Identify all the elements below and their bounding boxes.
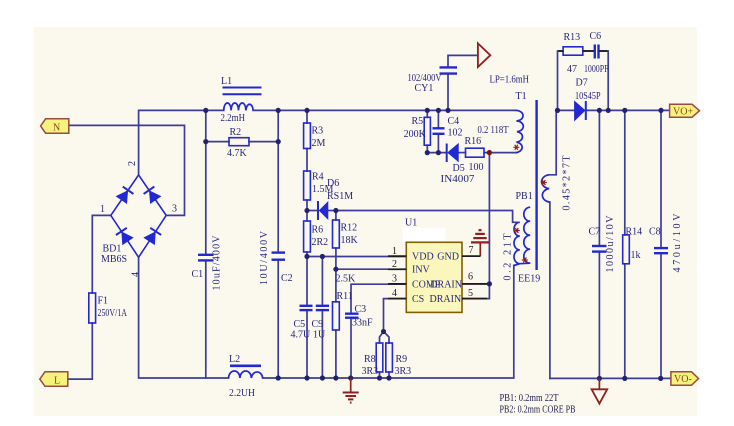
- svg-text:EE19: EE19: [518, 274, 540, 285]
- svg-text:200K: 200K: [404, 129, 427, 140]
- svg-text:CY1: CY1: [415, 83, 434, 94]
- svg-text:102: 102: [448, 128, 463, 139]
- svg-text:10uF/400V: 10uF/400V: [212, 235, 223, 291]
- svg-text:T1: T1: [516, 91, 527, 102]
- svg-text:2: 2: [127, 161, 138, 166]
- svg-text:100: 100: [469, 162, 484, 173]
- svg-text:C2: C2: [281, 273, 293, 284]
- svg-text:R13: R13: [564, 32, 581, 43]
- svg-text:7: 7: [469, 245, 474, 256]
- svg-text:2R2: 2R2: [312, 237, 329, 248]
- svg-text:6: 6: [468, 271, 473, 282]
- svg-text:4.7K: 4.7K: [227, 148, 248, 159]
- svg-text:INV: INV: [412, 265, 431, 276]
- svg-text:4: 4: [392, 288, 397, 299]
- svg-text:R14: R14: [626, 227, 643, 238]
- svg-text:R4: R4: [312, 172, 324, 183]
- svg-text:0.45*2*7T: 0.45*2*7T: [562, 156, 573, 211]
- svg-text:R16: R16: [465, 136, 482, 147]
- svg-text:10S45P: 10S45P: [575, 91, 601, 102]
- svg-text:L2: L2: [229, 354, 240, 365]
- svg-text:GND: GND: [437, 252, 459, 263]
- svg-text:2.2UH: 2.2UH: [229, 388, 255, 399]
- svg-text:0.2 118T: 0.2 118T: [478, 125, 509, 136]
- svg-text:1k: 1k: [631, 250, 641, 261]
- svg-text:DRAIN: DRAIN: [430, 294, 462, 305]
- svg-text:470u/10V: 470u/10V: [672, 213, 683, 273]
- svg-text:R11: R11: [337, 291, 353, 302]
- svg-text:1000PF: 1000PF: [584, 64, 609, 75]
- svg-text:18K: 18K: [341, 235, 359, 246]
- svg-text:4: 4: [131, 272, 142, 277]
- svg-text:C3: C3: [355, 304, 367, 315]
- svg-text:R9: R9: [396, 354, 408, 365]
- svg-text:D6: D6: [327, 178, 339, 189]
- svg-text:PB2: 0.2mm CORE PB: PB2: 0.2mm CORE PB: [500, 405, 576, 416]
- svg-text:VO-: VO-: [674, 374, 692, 385]
- svg-text:PB1: PB1: [516, 191, 533, 202]
- svg-text:F1: F1: [98, 296, 109, 307]
- svg-text:PB1: 0.2mm 22T: PB1: 0.2mm 22T: [500, 393, 559, 404]
- svg-text:C9: C9: [312, 319, 324, 330]
- svg-text:1: 1: [100, 204, 105, 215]
- svg-text:IN4007: IN4007: [441, 174, 475, 185]
- svg-text:MB6S: MB6S: [101, 254, 127, 265]
- svg-text:3R3: 3R3: [362, 366, 379, 377]
- svg-text:C4: C4: [448, 116, 460, 127]
- svg-text:C5: C5: [294, 319, 306, 330]
- svg-text:1U: 1U: [313, 330, 326, 341]
- svg-text:D7: D7: [576, 78, 588, 89]
- svg-text:4.7U: 4.7U: [291, 330, 312, 341]
- svg-text:2.2mH: 2.2mH: [221, 113, 246, 124]
- svg-text:CS: CS: [412, 294, 424, 305]
- svg-text:R2: R2: [230, 127, 242, 138]
- svg-text:R8: R8: [364, 354, 376, 365]
- svg-text:C6: C6: [590, 31, 602, 42]
- svg-text:2M: 2M: [312, 138, 326, 149]
- svg-text:250V/1A: 250V/1A: [98, 308, 128, 319]
- svg-text:2: 2: [392, 259, 397, 270]
- svg-text:1000u/10V: 1000u/10V: [605, 215, 616, 273]
- svg-text:R6: R6: [312, 225, 324, 236]
- svg-text:L: L: [54, 376, 60, 387]
- svg-text:C1: C1: [192, 269, 204, 280]
- svg-text:3: 3: [392, 273, 397, 284]
- svg-text:R12: R12: [341, 223, 358, 234]
- svg-text:L1: L1: [221, 76, 232, 87]
- svg-text:RS1M: RS1M: [327, 191, 353, 202]
- svg-text:R5: R5: [412, 116, 424, 127]
- svg-text:VDD: VDD: [412, 252, 434, 263]
- svg-text:R3: R3: [312, 126, 324, 137]
- svg-text:DRAIN: DRAIN: [430, 279, 462, 290]
- svg-text:BD1: BD1: [103, 244, 122, 255]
- svg-text:LP=1.6mH: LP=1.6mH: [490, 75, 530, 86]
- svg-text:C7: C7: [589, 227, 601, 238]
- svg-text:N: N: [53, 123, 60, 134]
- svg-text:10U/400V: 10U/400V: [259, 230, 270, 285]
- svg-text:3R3: 3R3: [395, 366, 412, 377]
- svg-text:5: 5: [468, 288, 473, 299]
- svg-text:U1: U1: [405, 218, 417, 229]
- svg-text:D5: D5: [453, 163, 465, 174]
- svg-text:3: 3: [172, 204, 177, 215]
- svg-text:33nF: 33nF: [352, 318, 373, 329]
- svg-text:1: 1: [392, 246, 397, 257]
- svg-text:VO+: VO+: [673, 107, 693, 118]
- svg-text:C8: C8: [649, 227, 661, 238]
- svg-text:2.5K: 2.5K: [336, 274, 357, 285]
- svg-text:47: 47: [567, 64, 577, 75]
